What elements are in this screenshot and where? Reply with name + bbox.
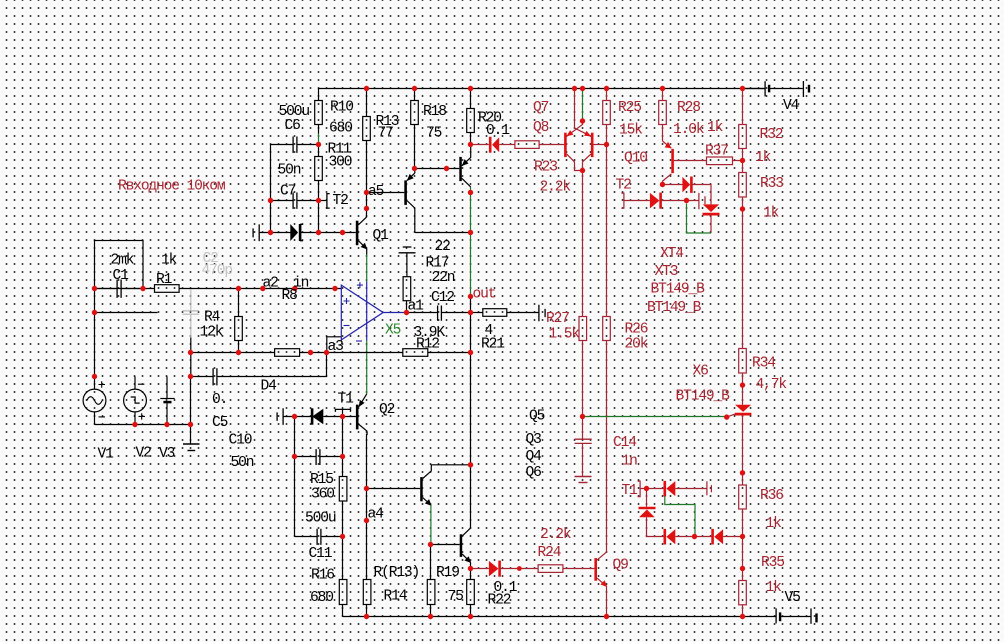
svg-text:2mk: 2mk (111, 253, 135, 269)
terminal in2 connector at y=416 (277, 408, 283, 425)
wire y=168 to Q6 base (415, 168, 460, 170)
wire R15 to C11 line (342, 501, 344, 537)
junction 742,88 (740, 86, 745, 91)
svg-text:R25: R25 (618, 100, 641, 116)
svg-text:22n: 22n (432, 270, 455, 286)
battery V3 plates (160, 398, 174, 400)
wire C11 line y=536 (295, 536, 317, 538)
wire terminal to R17 (406, 253, 408, 277)
wire in2 to D5 diode (283, 416, 311, 418)
svg-text:T2: T2 (333, 193, 349, 209)
svg-text:Q10: Q10 (624, 151, 647, 167)
svg-text:1k: 1k (707, 120, 724, 136)
wire stub y=312 (95, 312, 158, 314)
svg-text:2.2k: 2.2k (540, 180, 572, 196)
wire D5 to Q2 base (323, 416, 356, 418)
wire T1 stub (342, 409, 344, 416)
resistor R24 (538, 565, 563, 573)
wire X5a collector down x=414 (414, 208, 416, 232)
transistor Q4 collector (423, 465, 471, 479)
wire R20 top lead (470, 89, 472, 109)
svg-text:V5: V5 (785, 590, 801, 606)
svg-text:Q7: Q7 (533, 100, 549, 116)
svg-text:500u: 500u (305, 511, 336, 527)
capacitor C1 (117, 280, 121, 298)
wire D11 to D12 (675, 536, 711, 538)
svg-text:Q9: Q9 (613, 558, 629, 574)
resistor R20 (467, 109, 475, 133)
wire node to R22 (470, 569, 472, 580)
junction 742,472 (740, 470, 745, 475)
junction 686,200 (684, 198, 689, 203)
terminal in connector at D3 line (253, 224, 259, 241)
junction a2 262,288 (260, 286, 265, 291)
source V2 circle (124, 389, 147, 412)
svg-text:Q5: Q5 (529, 409, 545, 425)
svg-text:D4: D4 (261, 379, 278, 395)
wire Q2 collector rail x=366 (366, 431, 369, 579)
wire R17 to a1 node (406, 301, 408, 313)
diode D13 pointing right (489, 561, 499, 577)
thyristor XT3 pointing down (703, 204, 719, 212)
junction 430,544 (428, 542, 433, 547)
svg-text:1k: 1k (766, 580, 783, 596)
junction 414,168 (412, 166, 417, 171)
svg-text:1k: 1k (161, 253, 178, 269)
junction 742,568 (740, 566, 745, 571)
transistor X5a bar (404, 180, 407, 205)
wire blue opamp internal x=366 (366, 282, 368, 341)
junction 190,424 (188, 422, 193, 427)
resistor R14 (363, 580, 371, 605)
wire output rail to R21 (471, 312, 483, 314)
battery V5 plates (775, 608, 777, 623)
junction a1 406,312.5 (404, 310, 409, 315)
source V1 minus mark (99, 416, 106, 418)
svg-text:77: 77 (378, 126, 394, 142)
wire C10 line y=456 (295, 456, 316, 458)
wire left rail x=270 (270, 145, 272, 233)
resistor R21 (483, 309, 507, 317)
wire R12 to output rail (428, 352, 471, 354)
terminal T2 red bracket (621, 193, 624, 208)
wire R33 down to R34 (742, 197, 744, 349)
transistor Q9 bar (594, 558, 597, 581)
wire D9 to terminal (675, 488, 707, 490)
transistor Q6 bar (459, 157, 462, 181)
junction 742,208.5 (740, 206, 745, 211)
junction 190,376 (188, 374, 193, 379)
wire Q1 emitter down black (366, 249, 368, 255)
svg-text:R35: R35 (761, 555, 784, 571)
resistor R1 (155, 285, 180, 293)
wire R13 top lead (366, 89, 368, 117)
transistor Q1 emitter (359, 241, 367, 249)
junction 742,384.5 (740, 382, 745, 387)
wire XT4 to XT3 elbow (691, 185, 711, 205)
resistor R22 (467, 580, 475, 605)
resistor R36 (739, 485, 747, 509)
transistor Q3 emitter (462, 554, 470, 562)
wire C11 to rail (322, 536, 343, 538)
wire ground column x=190 (190, 377, 192, 445)
junction 318,200 (316, 198, 321, 203)
junction 646,488 (644, 486, 649, 491)
wire output rail x=470 black (470, 297, 472, 529)
junction 574,88 (572, 86, 577, 91)
wire Q7 base to R25 column (594, 144, 607, 146)
wire y=544 base line to Q3 (431, 544, 460, 546)
box C1 outline (95, 241, 144, 289)
ground symbol black (183, 443, 200, 445)
svg-text:R23: R23 (534, 160, 557, 176)
capacitor C14 red lead (582, 417, 584, 439)
wire green output rail x=470 (470, 187, 472, 297)
junction 446,168 (444, 166, 449, 171)
wire T2 to D8 (624, 200, 650, 202)
svg-text:Q6: Q6 (526, 465, 542, 481)
wire C2 column black tail (190, 338, 192, 377)
junction 470,464 (468, 462, 473, 467)
resistor R33 (739, 173, 747, 198)
wire C7 right to node (298, 200, 319, 202)
resistor R4 (235, 317, 243, 341)
transistor Q2 bar (356, 405, 359, 430)
transistor Q2 collector (359, 424, 368, 431)
svg-text:50n: 50n (231, 455, 254, 471)
wire green Q4 emitter to Q3 base (430, 505, 432, 544)
wire rail to R16 (342, 537, 344, 580)
svg-text:Q2: Q2 (379, 402, 395, 418)
wire sources bottom rail y=424 (95, 424, 191, 426)
junction 606,88 (604, 86, 609, 91)
transistor Q9 collector (597, 552, 607, 560)
transistor Q8 bar (564, 133, 567, 157)
junction 310,352.5 (308, 350, 313, 355)
wire R18 top lead (414, 89, 416, 101)
svg-text:4,7k: 4,7k (756, 377, 788, 393)
svg-text:50n: 50n (278, 163, 301, 179)
junction 366,616 (364, 614, 369, 619)
svg-text:R10: R10 (330, 100, 353, 116)
wire 300 resistor to a3 (300, 352, 327, 354)
wire green x=582 top (582, 89, 584, 119)
svg-text:X6: X6 (693, 364, 709, 380)
wire R18 down to y=168 node (414, 125, 416, 169)
thyristor X6 pointing down (735, 405, 751, 412)
wire R19 to bottom rail (430, 605, 432, 617)
junction a3 326,352.5 (324, 350, 329, 355)
svg-text:T2: T2 (616, 178, 632, 194)
svg-text:22: 22 (435, 239, 451, 255)
diode D12 pointing left (711, 529, 714, 545)
junction 430,616 (428, 614, 433, 619)
svg-text:a5: a5 (368, 184, 384, 200)
wire a1 to C12 (407, 312, 438, 314)
transistor Q7 collector (583, 154, 591, 170)
junction 142,288 (140, 286, 145, 291)
svg-text:Q8: Q8 (533, 120, 549, 136)
wire x=742 from top rail (742, 89, 744, 125)
wire R28 to Q10 emitter (662, 125, 664, 142)
junction 742,616 (740, 614, 745, 619)
wire x=94 V1 column (94, 289, 96, 390)
wire R28 top lead (662, 89, 664, 101)
wire top supply rail y=88 (319, 88, 765, 90)
wire R4 bottom lead (238, 341, 240, 353)
wire R21 to out terminal (507, 312, 539, 314)
junction 606,144 (604, 142, 609, 147)
junction 94,312.5 (92, 310, 97, 315)
junction 470,88 (468, 86, 473, 91)
resistor R10 (315, 101, 323, 125)
wire feedback line y=352 left (191, 352, 275, 354)
svg-text:R8: R8 (282, 288, 298, 304)
junction 270,200 (268, 198, 273, 203)
wire x=294 rail (294, 417, 296, 537)
transistor Q8 collector (567, 154, 583, 170)
diode D3 (290, 224, 298, 241)
svg-text:V2: V2 (136, 446, 152, 462)
junction 582,170 (580, 168, 585, 173)
resistor R27 (579, 317, 587, 341)
svg-text:680: 680 (310, 590, 333, 606)
junction 342,232 Q1 base (340, 230, 345, 235)
svg-text:R26: R26 (625, 322, 648, 338)
wire red y=568 node to D13 (471, 568, 489, 570)
wire R25 down to R26 (606, 125, 608, 317)
resistor R37 (707, 157, 733, 165)
resistor R18 (411, 101, 419, 125)
wire D4 line y=376 (191, 376, 213, 378)
wire V2 bottom (134, 412, 136, 425)
wire node to R11 (318, 145, 320, 157)
svg-text:X5: X5 (385, 323, 401, 339)
junction 582,88 (580, 86, 585, 91)
wire C10 to x=342 rail (321, 456, 343, 458)
svg-text:T1: T1 (338, 392, 355, 408)
wire C6 line y=144 (271, 144, 293, 146)
svg-text:C14: C14 (613, 435, 637, 451)
thyristor XT4 (682, 177, 690, 193)
source V1 circle (83, 389, 106, 412)
junction 342,536 (340, 534, 345, 539)
wire D13 to R24 (500, 568, 538, 570)
svg-text:R19: R19 (436, 565, 459, 581)
terminal T1 right connector (707, 481, 712, 495)
svg-text:R24: R24 (538, 545, 562, 561)
terminal T1 bracket (335, 409, 350, 412)
source V2 top lead (134, 377, 136, 390)
opamp X5 output blue (383, 312, 406, 314)
transistor Q10 bar (671, 149, 674, 173)
wire R10 to node (318, 125, 320, 134)
junction 270,232 (268, 230, 273, 235)
transistor Q4 emitter (423, 498, 431, 506)
opamp X5 minus mark bottom (356, 340, 362, 342)
wire x=582 collector rail to R27 (582, 171, 584, 317)
transistor Q8 emitter (567, 119, 583, 137)
wire R27 to node 582,416 (582, 341, 584, 417)
wire green T1 loop (665, 497, 695, 537)
junction 470,312.5 (468, 310, 473, 315)
svg-text:R4: R4 (204, 310, 221, 326)
junction 470,616 (468, 614, 473, 619)
svg-text:75: 75 (448, 589, 464, 605)
capacitor C14 bottom lead (582, 444, 584, 477)
capacitor C12 (438, 306, 442, 321)
junction 238,352.5 (236, 350, 241, 355)
svg-text:0.: 0. (212, 392, 227, 408)
svg-text:R21: R21 (481, 337, 505, 353)
svg-text:BT149_B: BT149_B (651, 282, 706, 298)
svg-text:R(R13): R(R13) (374, 565, 420, 581)
wire X6 cathode down (742, 416, 744, 486)
junction 294,416 (292, 414, 297, 419)
svg-text:out: out (473, 287, 496, 303)
svg-text:470p: 470p (202, 263, 233, 279)
wire XT4 anode line y=184 (663, 184, 683, 186)
junction 414,88 (412, 86, 417, 91)
junction 470,568 (468, 566, 473, 571)
wire R1 to opamp input (179, 288, 341, 290)
junction 470,232 (468, 230, 473, 235)
wire T1 to D9 (640, 488, 664, 490)
junction 470,144 (468, 142, 473, 147)
transistor X5a collector (407, 201, 415, 209)
source V2 minus mark (138, 383, 145, 385)
svg-text:R18: R18 (423, 104, 446, 120)
junction X6 gate 726,416.6 (724, 414, 729, 419)
svg-text:C12: C12 (431, 290, 454, 306)
transistor Q7 bar (591, 133, 594, 157)
junction 318,144 (316, 142, 321, 147)
terminal T2 black bracket (327, 194, 330, 209)
junction in 294,288 (292, 286, 297, 291)
svg-text:R34: R34 (752, 356, 776, 372)
wire C5 to a3 elbow (218, 376, 327, 378)
svg-text:1k: 1k (766, 516, 783, 532)
wire R22 to bottom rail (470, 605, 472, 617)
diode D7 pointing left (489, 137, 492, 153)
wire green segment x=366 above opamp (366, 255, 368, 282)
wire a3 inverting input elbow (327, 337, 342, 353)
svg-text:a2: a2 (263, 276, 279, 292)
wire bottom rail y=616 (343, 616, 777, 618)
wire R4 top lead (238, 289, 240, 317)
resistor R26 (603, 317, 611, 341)
transistor X5a emitter lead (414, 169, 416, 173)
svg-text:R14: R14 (384, 589, 408, 605)
diode D9 pointing left (663, 481, 666, 497)
svg-text:a4: a4 (368, 507, 385, 523)
resistor R12 (403, 349, 428, 357)
wire x=342 rail upper (342, 417, 344, 477)
wire R36 down to R35 (742, 509, 744, 581)
junction 742,160 (740, 158, 745, 163)
source V1 plus mark (99, 381, 106, 387)
junction a4 366,520 (364, 518, 369, 523)
junction 166,424 (164, 422, 169, 427)
resistor R34 (739, 349, 747, 374)
wire C6 right to node (298, 144, 319, 146)
source V2 plus mark (139, 413, 146, 419)
junction 582,416 (580, 414, 585, 419)
wire x=574 emitter rail from top (574, 89, 576, 129)
transistor Q6 collector (462, 178, 471, 187)
svg-text:12k: 12k (200, 325, 224, 341)
resistor R15 (339, 477, 347, 502)
junction 190,352.5 (188, 350, 193, 355)
transistor Q4 bar (420, 477, 423, 501)
svg-text:C6: C6 (285, 118, 301, 134)
svg-text:C1: C1 (113, 268, 130, 284)
resistor R32 (739, 125, 747, 149)
wire R32 to R33 (742, 149, 744, 173)
svg-text:V1: V1 (98, 447, 115, 463)
diode D10 pointing up (639, 507, 656, 510)
resistor R23 (515, 141, 539, 149)
wire R16 to bottom rail (342, 605, 344, 617)
wire R26 down to Q9 collector (606, 341, 608, 553)
opamp X5 plus mark left (344, 298, 350, 304)
junction 694,536 (692, 534, 697, 539)
junction 366,88 (364, 86, 369, 91)
transistor Q1 bar (356, 221, 359, 246)
wire node 646 down to D10 (646, 489, 648, 507)
resistor R5 value 300 (275, 349, 300, 357)
wire input y=288 from C1 left (95, 288, 117, 290)
svg-text:R22: R22 (488, 593, 511, 609)
wire a5 base line y=192 (367, 192, 405, 194)
diode D11 pointing left (663, 529, 666, 545)
resistor R11 (315, 157, 323, 181)
wire Q3 emitter to node 470,568 (470, 562, 472, 568)
diode D5 pointing left (312, 409, 323, 425)
wire R11 down to D3 line (318, 181, 320, 233)
transistor X5a emitter (407, 173, 415, 181)
resistor R19 (427, 580, 435, 605)
opamp X5 minus mark left (344, 325, 350, 327)
svg-text:T1: T1 (622, 483, 639, 499)
wire a3 node to R12 (327, 352, 403, 354)
svg-text:C10: C10 (229, 433, 252, 449)
terminal T1 red bracket (638, 481, 641, 497)
transistor Q1 collector (359, 217, 367, 225)
svg-text:680: 680 (329, 121, 352, 137)
svg-text:R16: R16 (311, 568, 334, 584)
svg-text:R36: R36 (760, 488, 783, 504)
resistor R13 (363, 117, 371, 141)
svg-text:1k: 1k (755, 150, 772, 166)
capacitor C14 plates (575, 439, 592, 443)
wire R20 to node 470,144 (470, 133, 472, 145)
ground symbol red (575, 476, 592, 478)
junction a5 366,192 (364, 190, 369, 195)
junction 606,616 (604, 614, 609, 619)
capacitor C11 (317, 529, 321, 545)
svg-text:300: 300 (329, 155, 352, 171)
transistor Q9 emitter (597, 578, 607, 586)
svg-text:1.0k: 1.0k (673, 122, 705, 138)
svg-text:1n: 1n (622, 454, 638, 470)
wire red y=144 node to D7 (471, 144, 489, 146)
junction 294,456 (292, 454, 297, 459)
wire R37 to x=742 rail (733, 160, 743, 162)
battery V4 left lead (743, 88, 765, 90)
wire green XT3 loop (687, 204, 712, 234)
capacitor C7 (293, 193, 297, 209)
